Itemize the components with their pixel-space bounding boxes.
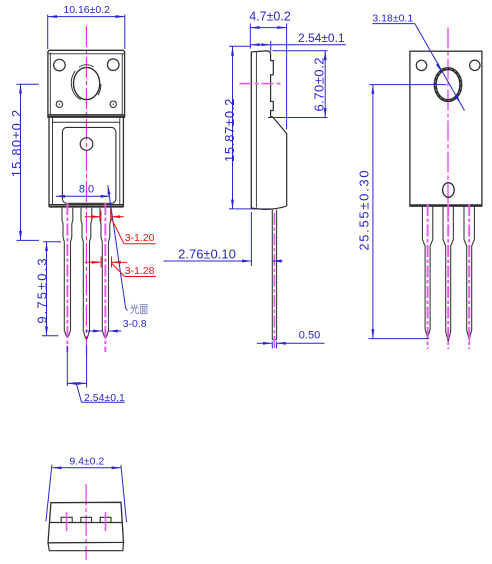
- svg-text:6.70±0.2: 6.70±0.2: [312, 57, 327, 112]
- side profile outline: [251, 51, 286, 209]
- tab pin mark bottom-left: [56, 101, 62, 107]
- lead 2 (front middle): [81, 208, 92, 339]
- svg-text:0.50: 0.50: [299, 330, 320, 342]
- pin section 3: [100, 517, 111, 522]
- dimension 3-1.20 (red): [85, 211, 156, 244]
- body hole (front): [80, 138, 93, 151]
- svg-text:9.4±0.2: 9.4±0.2: [69, 456, 104, 468]
- back hole top-right: [470, 60, 480, 70]
- back small hole: [443, 183, 455, 198]
- body outline (front): [49, 117, 123, 207]
- svg-text:3-0.8: 3-0.8: [123, 318, 147, 330]
- svg-text:2.76±0.10: 2.76±0.10: [178, 246, 236, 261]
- side lead: [272, 210, 276, 340]
- back center hole: [434, 68, 461, 102]
- dimension 9.4±0.2: [46, 465, 127, 522]
- tab center hole: [71, 65, 101, 100]
- back lead 2: [443, 206, 453, 341]
- dimension 4.7±0.2: [250, 24, 286, 130]
- dimension 2.76±0.10: [164, 212, 283, 266]
- svg-text:15.87±0.2: 15.87±0.2: [222, 98, 237, 162]
- dimension 6.70±0.2: [268, 51, 328, 118]
- tab outline (front): [48, 50, 125, 117]
- dimension 10.16±0.2: [48, 15, 125, 50]
- lead 3 (front right): [100, 208, 111, 339]
- centerline (bottom view): [85, 484, 87, 560]
- pin centerline marks: [66, 512, 68, 531]
- svg-text:2.54±0.1: 2.54±0.1: [84, 392, 125, 404]
- bottom view outline: [48, 502, 124, 550]
- svg-text:3-1.28: 3-1.28: [125, 265, 155, 277]
- centerline (back view vertical): [447, 28, 449, 220]
- tab pin mark bottom-right: [110, 101, 116, 107]
- svg-text:3.18±0.1: 3.18±0.1: [372, 12, 413, 24]
- svg-text:15.80±0.2: 15.80±0.2: [9, 109, 24, 178]
- dimension 25.55±0.30: [369, 85, 447, 339]
- svg-text:4.7±0.2: 4.7±0.2: [249, 9, 291, 23]
- dimension 0.50: [257, 342, 325, 349]
- svg-text:25.55±0.30: 25.55±0.30: [357, 169, 372, 251]
- dimension 8.0: [56, 185, 128, 310]
- svg-text:2.54±0.1: 2.54±0.1: [298, 31, 345, 45]
- lead centerline right: [104, 203, 106, 352]
- svg-text:3-1.20: 3-1.20: [125, 232, 155, 244]
- dimension 2.54±0.1 (side top): [250, 41, 345, 52]
- dimension 15.80±0.2: [17, 84, 40, 240]
- svg-text:8.0: 8.0: [79, 184, 94, 196]
- lead 1 (front left): [62, 208, 73, 338]
- pin section 2: [81, 517, 92, 522]
- svg-text:9.75±0.3: 9.75±0.3: [35, 256, 50, 323]
- back hole top-left: [416, 60, 426, 70]
- svg-text:10.16±0.2: 10.16±0.2: [63, 4, 110, 16]
- dimension 3-1.28 (red): [85, 257, 156, 277]
- centerline (front view vertical): [85, 26, 87, 355]
- dimension 3.18±0.1: [372, 24, 464, 111]
- lead centerline left: [66, 203, 68, 352]
- side hole centerline: [240, 83, 281, 85]
- pin section 1: [61, 517, 72, 522]
- dimension 3-0.8: [86, 330, 122, 332]
- back lead 1: [422, 206, 432, 338]
- tab hole top-left: [54, 59, 66, 71]
- dimension 15.87±0.2: [229, 46, 271, 209]
- dimension 2.54±0.1 (front bottom): [67, 346, 125, 403]
- tab hole top-right: [107, 59, 119, 71]
- label 光面: [130, 304, 147, 313]
- back lead 3: [464, 206, 474, 339]
- back lead centerlines: [427, 204, 429, 349]
- dimension 9.75±0.3: [42, 242, 61, 336]
- side lead centerline: [273, 213, 275, 348]
- back body outline: [410, 51, 482, 206]
